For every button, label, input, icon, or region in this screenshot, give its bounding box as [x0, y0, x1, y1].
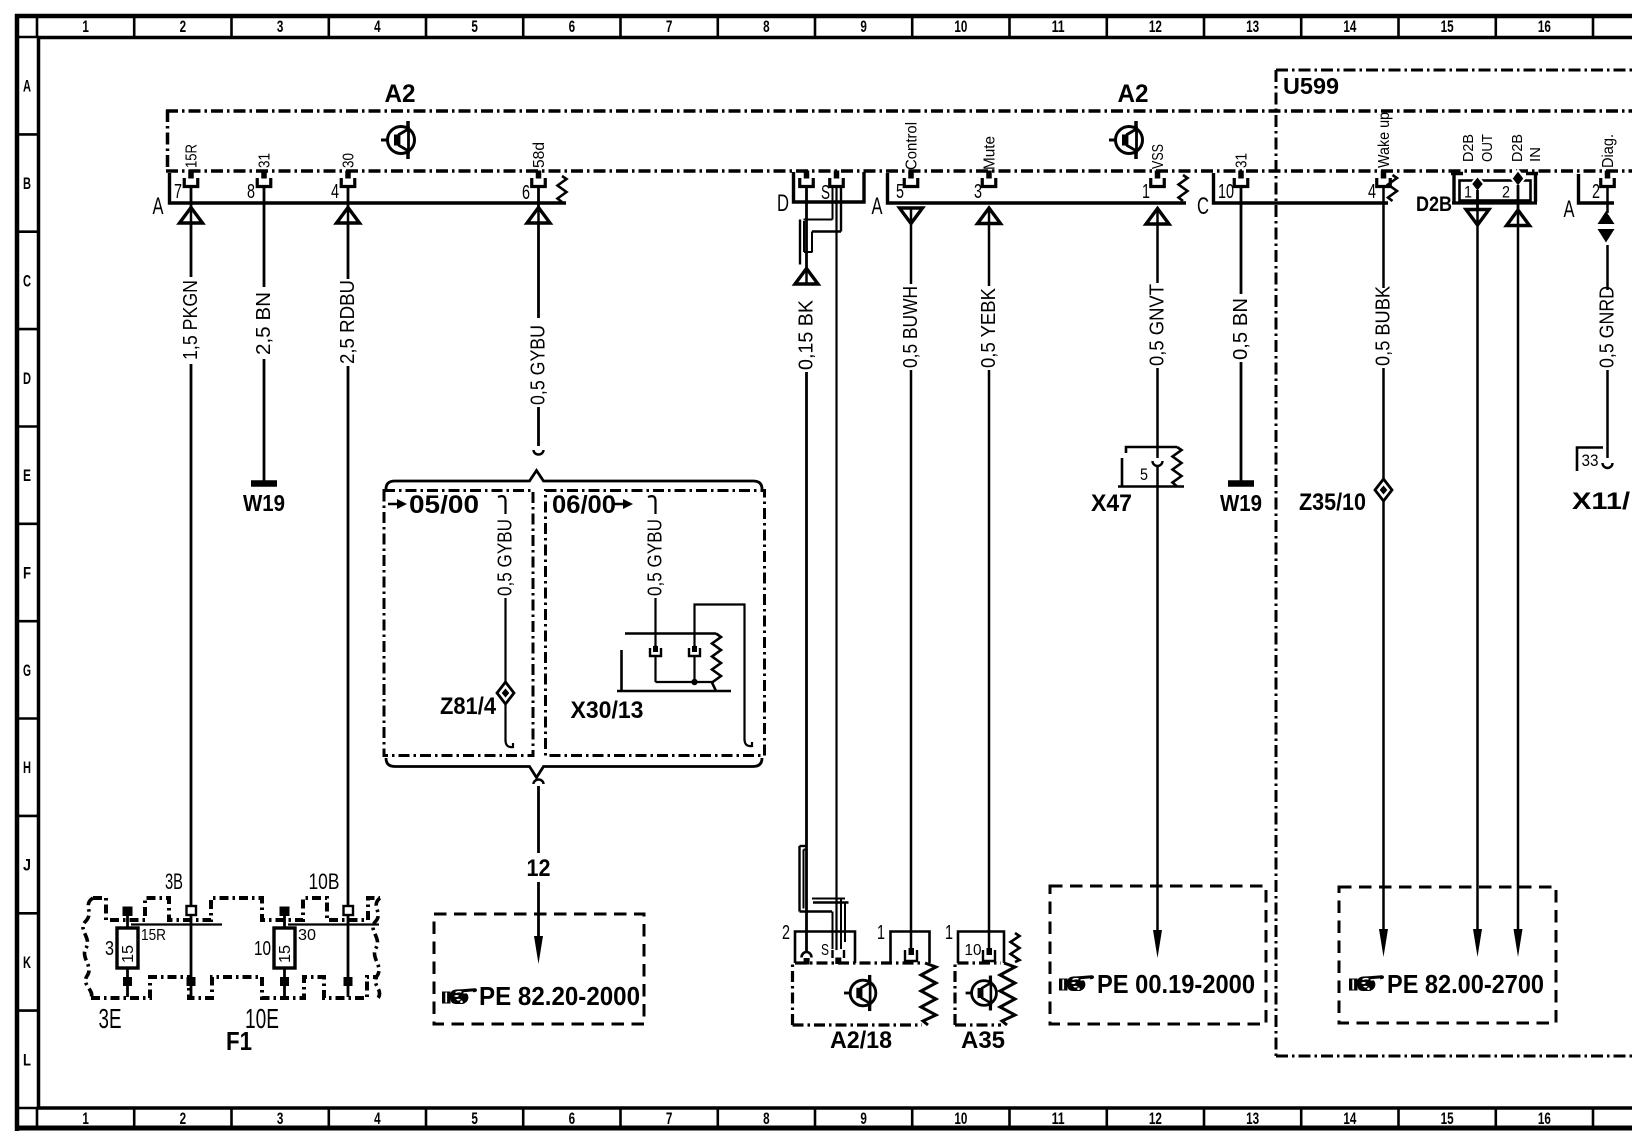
svg-text:31: 31 [1234, 153, 1251, 168]
X30/13 pin 2 [689, 645, 700, 656]
wire pin1 segments [1156, 224, 1159, 283]
svg-text:13: 13 [1246, 17, 1259, 36]
svg-text:PE 82.20-2000: PE 82.20-2000 [479, 981, 640, 1011]
wire to X30/13 [654, 598, 656, 649]
wire pin3 segments [988, 224, 991, 287]
connector arrow pin 5 (down) [900, 208, 923, 224]
wire pin8 lower segment to ground [263, 359, 266, 481]
arrows into PE 82.00-2700 [1379, 929, 1388, 957]
svg-text:B: B [23, 174, 31, 193]
shielded pair crossover (lower) [800, 846, 849, 949]
svg-text:0,5 GNRD: 0,5 GNRD [1597, 286, 1619, 368]
shielded pair crossover (upper) [800, 187, 841, 265]
svg-text:OUT: OUT [1479, 134, 1496, 162]
svg-text:A2: A2 [1118, 80, 1149, 108]
svg-text:11: 11 [1052, 1109, 1065, 1128]
pointing hand icon [1059, 975, 1094, 991]
svg-text:16: 16 [1538, 1109, 1551, 1128]
wire pin8 upper segment [263, 186, 266, 287]
X11 pin 33 bracket [1577, 448, 1603, 472]
wire pin6 lower segment [537, 407, 540, 446]
connector arrow pin 7 [180, 208, 203, 224]
wire Diag segments [1606, 186, 1609, 213]
connector D bracket [794, 172, 865, 202]
D2B pin 1 male pin [1471, 176, 1484, 192]
svg-text:6: 6 [522, 182, 530, 204]
svg-text:0,5 YEBK: 0,5 YEBK [978, 287, 1000, 368]
svg-text:2: 2 [180, 17, 187, 36]
fuse 1 bottom lead and pin [126, 968, 129, 997]
svg-text:H: H [23, 758, 31, 777]
stud terminal 3B (open square) [187, 906, 197, 915]
wire end hook above coupling [534, 450, 544, 455]
X30/13 pin 1 [650, 645, 661, 656]
svg-text:4: 4 [331, 181, 339, 203]
wire continuation hook (06/00) [648, 496, 656, 514]
A35 box coil edge [1000, 963, 1015, 1025]
svg-text:K: K [23, 953, 31, 972]
amplifier U599 box top edge [1276, 69, 1632, 72]
wire GNVT below X47 [1156, 466, 1159, 930]
svg-text:5: 5 [471, 1109, 478, 1128]
pin S socket [830, 171, 844, 187]
svg-text:E: E [23, 466, 31, 485]
pin 4 socket (U599) [1377, 171, 1391, 187]
svg-text:3: 3 [277, 17, 284, 36]
pin 2 socket (X11) [1601, 171, 1615, 187]
svg-text:0,5 GNVT: 0,5 GNVT [1147, 284, 1169, 366]
pointing hand icon [442, 988, 477, 1004]
svg-text:15R: 15R [184, 144, 201, 168]
wire below Z81/4 with end hook [504, 704, 506, 741]
svg-text:S: S [821, 942, 829, 959]
connector A bracket (left section) [170, 173, 567, 203]
svg-text:14: 14 [1343, 17, 1356, 36]
A2/18 box coil edge [921, 963, 936, 1025]
pin 4 socket [341, 171, 355, 187]
wire GNRD lower segment [1606, 370, 1609, 458]
svg-text:0,5 BUWH: 0,5 BUWH [900, 286, 922, 368]
reference box PE 82.20-2000 [434, 914, 644, 1024]
svg-text:PE 00.19-2000: PE 00.19-2000 [1097, 969, 1255, 999]
connector A bracket (X11 section) [1579, 174, 1615, 203]
svg-text:10: 10 [954, 17, 967, 36]
svg-text:12: 12 [1149, 17, 1162, 36]
svg-text:F: F [23, 564, 31, 583]
fuse box F1 top edge (castellated) [93, 898, 380, 920]
svg-text:0,5 GYBU: 0,5 GYBU [495, 519, 517, 596]
svg-text:31: 31 [257, 153, 274, 168]
svg-text:1: 1 [877, 922, 885, 944]
wire 0,15 BK upper segment [805, 186, 808, 268]
pin 10 socket [1234, 171, 1248, 187]
svg-text:S: S [821, 182, 830, 204]
X47 female pin hook [1153, 461, 1163, 466]
wire pin4 upper segment [347, 186, 350, 279]
svg-text:1,5 PKGN: 1,5 PKGN [180, 280, 202, 360]
wire below Z35/10 [1382, 501, 1385, 930]
svg-text:Diag.: Diag. [1600, 134, 1617, 168]
bus bar from fuse 10 to stud 10B [288, 923, 379, 925]
svg-text:3: 3 [277, 1109, 284, 1128]
svg-text:15: 15 [1441, 1109, 1454, 1128]
wire continuation hook (05/00) [498, 496, 506, 514]
loudspeaker symbol in A2 (left) [381, 121, 415, 159]
coil symbol at pin 4 [1388, 175, 1397, 201]
svg-text:2: 2 [1502, 183, 1510, 202]
svg-text:W19: W19 [243, 490, 285, 516]
bidirectional arrows (Diag wire) [1598, 211, 1615, 224]
connector arrow D2B OUT (down) [1466, 210, 1489, 226]
fuse 1 top lead and pin [126, 915, 129, 928]
amplifier U599 box bottom edge [1276, 1055, 1632, 1058]
radio unit A2 box bottom edge [166, 169, 1632, 173]
pin 6 socket [532, 171, 546, 187]
svg-text:3E: 3E [99, 1003, 122, 1034]
svg-text:4: 4 [374, 17, 381, 36]
fuse 2 bottom lead and pin [283, 968, 286, 997]
svg-text:1: 1 [82, 17, 89, 36]
svg-text:15: 15 [277, 945, 294, 963]
svg-text:12: 12 [527, 855, 551, 882]
wire pin5 segments [910, 224, 913, 285]
svg-text:0,5 GYBU: 0,5 GYBU [645, 519, 667, 596]
svg-text:A2: A2 [385, 80, 416, 108]
svg-text:5: 5 [471, 17, 478, 36]
speaker box A2/18 [793, 963, 923, 1025]
svg-text:9: 9 [860, 17, 867, 36]
svg-text:15: 15 [1441, 17, 1454, 36]
fuse 15A (terminal 30) body [274, 928, 295, 968]
svg-text:3: 3 [974, 181, 982, 203]
connector arrow D2B IN (up) [1507, 210, 1530, 226]
svg-text:5: 5 [1140, 465, 1148, 484]
svg-text:3: 3 [105, 938, 114, 960]
svg-text:IN: IN [1527, 147, 1544, 162]
svg-text:10: 10 [965, 942, 982, 959]
pin socket (D left) [800, 171, 814, 187]
svg-text:2: 2 [180, 1109, 187, 1128]
svg-text:10: 10 [1218, 181, 1234, 203]
svg-text:2: 2 [782, 922, 790, 944]
svg-text:C: C [1197, 193, 1209, 220]
connector arrow pin 4 [337, 208, 360, 224]
svg-text:12: 12 [1149, 1109, 1162, 1128]
svg-text:16: 16 [1538, 17, 1551, 36]
svg-text:1: 1 [82, 1109, 89, 1128]
svg-text:6: 6 [569, 17, 576, 36]
pin 1 socket [1151, 171, 1165, 187]
svg-text:4: 4 [1368, 181, 1376, 203]
svg-text:D: D [777, 190, 789, 217]
wire pin7 lower segment to fuse box [190, 364, 193, 906]
svg-text:X47: X47 [1091, 490, 1132, 517]
svg-text:9: 9 [860, 1109, 867, 1128]
speaker A2/18 bracket 2 [795, 932, 855, 964]
wire continuation hook below brace [534, 780, 544, 785]
svg-text:11: 11 [1052, 17, 1065, 36]
A2/18 pin 1 box [905, 950, 917, 961]
svg-text:W19: W19 [1220, 490, 1262, 516]
X30/13 loop-out wire [695, 605, 745, 741]
X30/13 coil edge [712, 634, 721, 692]
svg-text:2,5 BN: 2,5 BN [253, 292, 275, 355]
svg-text:U599: U599 [1283, 73, 1339, 99]
svg-text:D2B: D2B [1460, 134, 1477, 162]
svg-text:0,5 BN: 0,5 BN [1230, 298, 1252, 360]
arrow after 06/00 [614, 503, 624, 506]
pin 8 socket [257, 171, 271, 187]
svg-text:1: 1 [1142, 181, 1150, 203]
svg-text:13: 13 [1246, 1109, 1259, 1128]
svg-text:7: 7 [174, 181, 182, 203]
X30/13 internal wiring [654, 656, 656, 682]
version box 06/00 [546, 491, 765, 756]
svg-text:8: 8 [763, 17, 770, 36]
arrow into PE 82.20-2000 [534, 936, 543, 964]
arrow into PE 00.19-2000 [1153, 930, 1162, 958]
svg-text:10: 10 [954, 1109, 967, 1128]
connector arrow pin 6 [527, 208, 550, 224]
coil symbol at pin 1 [1179, 175, 1188, 201]
svg-text:VSS: VSS [1150, 144, 1167, 169]
D2B connector inner housing [1460, 181, 1531, 201]
svg-text:1: 1 [945, 922, 953, 944]
svg-text:1: 1 [1464, 183, 1472, 202]
loudspeaker symbol A2/18 [844, 975, 876, 1011]
svg-text:D: D [23, 369, 31, 388]
svg-text:5: 5 [896, 181, 904, 203]
svg-text:7: 7 [666, 17, 673, 36]
svg-text:D2B: D2B [1509, 134, 1526, 162]
svg-text:0,5 BUBK: 0,5 BUBK [1373, 285, 1395, 366]
fuse box F1 bottom edge (castellated) [91, 977, 378, 998]
version box 05/00 [384, 491, 533, 756]
fuse box F1 left torn edge [83, 898, 93, 998]
wire pin4 U599 segments [1382, 186, 1385, 288]
svg-text:30: 30 [298, 927, 316, 944]
coupling brace top [386, 471, 762, 490]
fuse 15A (terminal 15R) body [117, 928, 138, 968]
pin 5 socket [904, 171, 918, 187]
speaker A2/18 bracket 1 [891, 932, 930, 964]
connector C bracket [1214, 173, 1389, 203]
radio unit A2 box top edge [166, 109, 1632, 113]
svg-text:A: A [153, 193, 164, 220]
svg-text:0,15 BK: 0,15 BK [796, 299, 818, 370]
wire pin4 lower segment to fuse box [347, 366, 350, 906]
coil symbol at A35 [1011, 933, 1020, 962]
inline connector X30/13 housing [625, 632, 716, 635]
pin 7 socket [184, 171, 198, 187]
svg-text:J: J [23, 856, 31, 875]
reference box PE 00.19-2000 [1050, 886, 1266, 1024]
svg-text:30: 30 [341, 153, 358, 168]
stud terminal 10B (open square) [344, 906, 354, 915]
svg-text:C: C [23, 271, 31, 290]
svg-text:L: L [23, 1050, 31, 1069]
fuse 2 top lead and pin [283, 915, 286, 928]
svg-text:D2B: D2B [1416, 193, 1452, 216]
loudspeaker symbol A35 [966, 976, 997, 1011]
svg-text:G: G [23, 661, 31, 680]
loudspeaker symbol in A2 (right) [1109, 121, 1143, 159]
pointing hand icon [1349, 975, 1384, 991]
coil symbol at pin 6 [558, 176, 567, 202]
wire D2B IN [1517, 226, 1520, 931]
reference box PE 82.00-2700 [1339, 887, 1556, 1023]
electrical connector sleeve Z35/10 [1375, 479, 1392, 501]
svg-text:A: A [23, 77, 31, 96]
svg-text:05/00: 05/00 [409, 491, 479, 519]
A2/18 female pin hook [802, 952, 812, 958]
wire pin4 through fuse box [347, 915, 350, 977]
svg-text:4: 4 [374, 1109, 381, 1128]
svg-text:7: 7 [666, 1109, 673, 1128]
svg-text:Z81/4: Z81/4 [440, 693, 497, 720]
svg-text:06/00: 06/00 [552, 491, 616, 519]
wire pin6 upper segment [537, 186, 540, 318]
svg-text:15R: 15R [141, 927, 166, 944]
svg-text:A35: A35 [961, 1027, 1005, 1054]
wire in 05/00 box [504, 598, 506, 682]
ground W19 bar (right) [1228, 480, 1254, 487]
shielded wire S (straight run) [835, 186, 837, 950]
svg-text:10B: 10B [309, 869, 340, 894]
svg-text:8: 8 [763, 1109, 770, 1128]
svg-text:Control: Control [904, 122, 921, 170]
amplifier U599 box left edge [1275, 70, 1278, 1056]
A2/18 pin S box [833, 950, 845, 958]
svg-text:3B: 3B [165, 869, 183, 894]
connector arrow pin 1 [1146, 209, 1169, 225]
wire pin7 upper segment [190, 186, 193, 277]
X11 female pin hook [1603, 463, 1613, 468]
connector arrow (BK wire) [795, 269, 818, 285]
ground W19 bar [251, 480, 277, 487]
X47 coil edge [1173, 447, 1182, 487]
svg-text:Mute: Mute [982, 136, 999, 170]
inline connector X47 housing [1126, 447, 1177, 453]
svg-text:0,5 GYBU: 0,5 GYBU [528, 325, 550, 405]
svg-text:2,5 RDBU: 2,5 RDBU [337, 280, 359, 364]
svg-text:A: A [872, 193, 883, 220]
fuse box F1 right torn edge [373, 898, 380, 998]
svg-text:Z35/10: Z35/10 [1299, 489, 1366, 516]
speaker box A35 [955, 963, 1001, 1025]
wire 12 upper segment [537, 786, 540, 853]
wire 0,15 BK lower segment [805, 372, 808, 951]
svg-text:Wake up: Wake up [1376, 112, 1393, 168]
speaker A35 bracket 1 [958, 932, 1004, 964]
pin 3 socket [982, 171, 996, 187]
svg-text:58d: 58d [531, 142, 548, 168]
D2B connector outer housing [1451, 173, 1538, 202]
svg-text:8: 8 [247, 181, 255, 203]
svg-text:6: 6 [569, 1109, 576, 1128]
svg-text:F1: F1 [226, 1026, 252, 1056]
svg-text:33: 33 [1582, 451, 1599, 470]
radio unit A2 box left edge [166, 110, 170, 171]
svg-text:PE 82.00-2700: PE 82.00-2700 [1387, 969, 1544, 999]
connector A bracket (middle section) [888, 173, 1187, 203]
svg-text:2: 2 [1592, 181, 1600, 203]
wire pin10 segments [1240, 186, 1243, 294]
electrical connector sleeve Z81/4 [497, 682, 514, 704]
A35 pin box [983, 950, 995, 961]
svg-text:X11/: X11/ [1572, 488, 1630, 515]
svg-text:A2/18: A2/18 [830, 1027, 892, 1054]
D2B pin 2 male pin [1512, 170, 1525, 187]
connector arrow pin 3 [978, 208, 1001, 224]
svg-text:A: A [1564, 196, 1575, 223]
bus bar from fuse 3 to stud 3B [131, 923, 222, 925]
wire 12 lower segment [537, 882, 540, 938]
svg-text:10: 10 [254, 938, 271, 960]
wire pin7 through fuse box [190, 915, 193, 977]
svg-text:X30/13: X30/13 [571, 697, 644, 724]
coupling brace bottom [386, 758, 762, 778]
svg-text:15: 15 [120, 945, 137, 963]
wire D2B OUT [1476, 225, 1479, 930]
svg-text:14: 14 [1343, 1109, 1356, 1128]
arrow into 05/00 [388, 503, 398, 506]
